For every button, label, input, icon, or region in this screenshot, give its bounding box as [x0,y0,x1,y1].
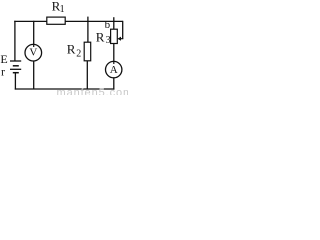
svg-text:1: 1 [60,4,65,15]
wire R3 branch lower to ammeter [113,44,115,64]
svg-text:manfen5.com: manfen5.com [57,87,129,95]
wire top rail [14,20,123,22]
svg-text:3: 3 [106,35,111,46]
wire left border lower (battery bottom lead) [14,73,16,90]
wire voltmeter branch lower [33,61,35,89]
svg-text:V: V [29,46,37,58]
resistor R2 box [84,42,91,61]
voltmeter top lead poke [33,45,35,48]
svg-text:R: R [67,42,76,57]
wire left border upper (battery top lead) [14,21,16,61]
battery short plate 2 [13,72,19,74]
battery long plate 2 [10,68,21,70]
ammeter top lead poke [113,61,115,64]
svg-text:A: A [110,64,118,76]
svg-text:r: r [1,65,5,79]
wire R2 branch lower [86,61,88,89]
svg-text:2: 2 [76,49,81,60]
resistor R1 leads hidden under box; box [47,17,65,24]
svg-text:b: b [105,19,111,31]
voltmeter V1 circle [25,44,42,61]
wire R3 branch upper (pokes above rail) [113,17,115,29]
battery E,r long plate 1 [10,60,21,62]
rheostat wiper arrow shaft [119,38,124,40]
rheostat wiper arrowhead [117,37,121,41]
wire bottom rail [15,88,115,90]
battery short plate 1 [13,65,19,67]
svg-text:R: R [96,30,105,45]
wire voltmeter branch upper [33,21,35,47]
rheostat R3 box [111,29,118,43]
wire right border down from top rail [122,21,124,39]
ammeter A1 circle [106,61,122,77]
wire R2 branch upper (pokes above rail) [87,17,89,43]
wire ammeter to bottom rail [113,78,115,90]
